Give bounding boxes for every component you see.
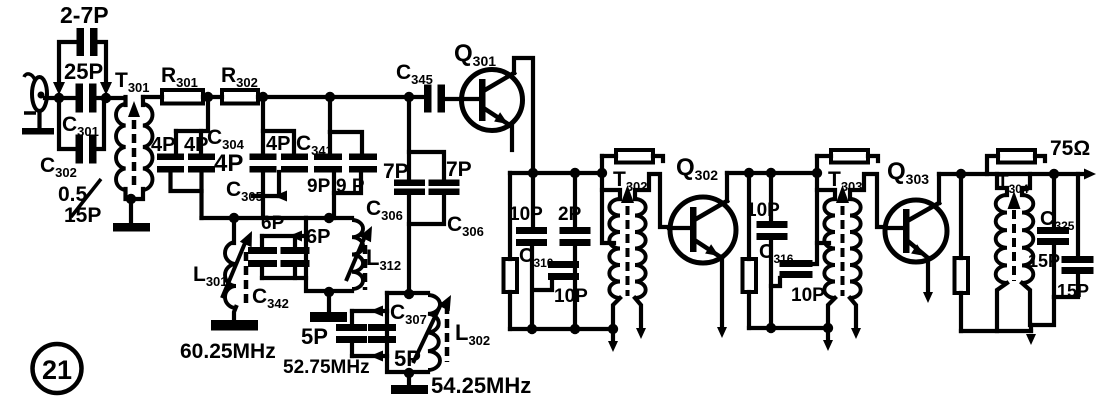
svg-text:54.25MHz: 54.25MHz: [431, 373, 531, 398]
transformer T301 secondary: [143, 97, 152, 190]
label C305: [226, 178, 263, 204]
capacitor 9P (second): [330, 132, 377, 197]
wire (C307 box): [387, 293, 428, 372]
node L (collector junction): [528, 168, 538, 178]
ground (antenna): [22, 111, 54, 135]
svg-text:R302: R302: [221, 64, 258, 90]
wire (L312 box): [306, 218, 352, 291]
capacitor 6P pair C342: [248, 231, 310, 279]
capacitor 4P (third): [250, 133, 291, 173]
label 5P (in box): [394, 346, 421, 371]
transformer T302 primary: [602, 190, 620, 298]
capacitor 4P (first): [151, 131, 184, 173]
svg-text:4P: 4P: [214, 150, 243, 177]
wire (C345 to Q301 base): [446, 97, 462, 101]
wire (node F down): [407, 100, 411, 180]
resistor R301: [161, 64, 203, 104]
wire (rail 1): [510, 327, 613, 331]
svg-text:10P: 10P: [509, 204, 543, 225]
svg-text:15P: 15P: [64, 204, 101, 227]
svg-text:5P: 5P: [394, 346, 421, 371]
svg-text:L312: L312: [366, 245, 401, 273]
wire (node F down to C307 box): [407, 195, 411, 293]
svg-text:T301: T301: [115, 69, 150, 95]
inductor L301: [222, 218, 252, 308]
transformer T302 core: [621, 185, 634, 296]
label 52.75MHz: [283, 357, 370, 378]
svg-text:75Ω: 75Ω: [1050, 137, 1090, 160]
node Q (rail1 end): [608, 324, 618, 334]
wire (group1 bottom bus): [202, 216, 307, 220]
transformer T301 label: [115, 69, 150, 95]
wire (bus 2): [727, 171, 817, 175]
transformer T302 secondary: [635, 174, 669, 298]
svg-text:L301: L301: [193, 263, 228, 289]
svg-text:4P: 4P: [151, 134, 175, 156]
svg-text:4P: 4P: [266, 133, 290, 155]
wire (T301 bottoms): [126, 189, 144, 199]
wire (output bus): [939, 169, 1096, 180]
svg-text:5P: 5P: [301, 324, 328, 349]
capacitor 5P pair: [336, 306, 396, 362]
svg-text:21: 21: [42, 355, 72, 385]
wire (output stage bottom): [1031, 297, 1054, 325]
node X: [1049, 169, 1059, 179]
node T: [766, 323, 776, 333]
svg-text:2-7P: 2-7P: [60, 2, 109, 28]
resistor (bias, output): [955, 174, 969, 331]
node (T301 bottom): [126, 194, 136, 204]
svg-text:10P: 10P: [746, 200, 780, 221]
transformer T304 core: [1008, 191, 1021, 281]
wire (T303 secondary bottom): [850, 298, 861, 339]
ground (L312): [310, 294, 347, 322]
wire (Q303 emitter): [923, 258, 933, 303]
transistor Q302: [669, 197, 736, 263]
svg-text:C306: C306: [366, 197, 403, 223]
label C301: [62, 113, 99, 139]
svg-text:C342: C342: [252, 285, 289, 311]
wire (C301 to T301): [96, 96, 122, 100]
svg-text:C345: C345: [396, 61, 433, 87]
svg-text:Q301: Q301: [454, 40, 496, 69]
resistor (T302 feed): [602, 150, 663, 163]
wire (Q301 collector): [514, 58, 533, 173]
transformer T304 secondary: [1022, 174, 1033, 283]
ground (stage1): [608, 331, 618, 352]
label 15P (C325): [1028, 251, 1060, 271]
capacitor 10P (stage2 lower): [771, 243, 825, 306]
node H (L312 top): [324, 213, 334, 223]
label T304: [997, 172, 1029, 196]
svg-text:4P: 4P: [184, 134, 208, 156]
label C306 left: [366, 197, 403, 223]
svg-text:C325: C325: [1040, 208, 1075, 233]
wire (C341 pair bottom): [253, 172, 287, 218]
wire (R302 to C345, main bus): [258, 95, 425, 99]
ground (T301): [113, 201, 150, 232]
label 54.25MHz: [431, 373, 531, 398]
wire (Q302 emitter): [717, 258, 727, 338]
capacitor 9P (first): [307, 132, 342, 197]
svg-text:9P: 9P: [307, 176, 331, 197]
svg-text:C305: C305: [226, 178, 263, 204]
node E: [325, 92, 335, 102]
capacitor 15P (second): [1054, 174, 1094, 301]
svg-text:C302: C302: [40, 154, 77, 180]
resistor R302: [221, 64, 258, 104]
label L302: [455, 320, 490, 348]
node I (L312 bottom): [324, 287, 334, 297]
label C310: [519, 245, 554, 270]
node K (C307 bottom): [404, 368, 414, 378]
label T302: [613, 168, 648, 194]
resistor 75ohm: [987, 137, 1090, 174]
node A (input junction): [54, 93, 64, 103]
node N: [527, 324, 537, 334]
wire (7P loop bottom): [409, 195, 444, 224]
ground (stage2): [823, 330, 833, 351]
svg-text:10P: 10P: [791, 285, 825, 306]
svg-text:C307: C307: [390, 301, 427, 327]
antenna input connector: [24, 74, 47, 111]
node O: [570, 324, 580, 334]
capacitor C301 25P: [64, 59, 103, 113]
wire (T304 secondary bottom): [1022, 283, 1030, 325]
label 60.25MHz: [180, 340, 276, 363]
label C306 right: [447, 213, 484, 239]
wire (T302 feed down): [602, 156, 614, 243]
trimmer capacitor 2-7P: [53, 2, 112, 95]
resistor (T303 feed): [817, 150, 878, 163]
svg-text:C306: C306: [447, 213, 484, 239]
svg-text:15P: 15P: [1057, 281, 1089, 301]
svg-text:6P: 6P: [261, 213, 285, 234]
node R: [744, 168, 754, 178]
wire (T302 primary bottom): [613, 298, 620, 329]
label T303: [828, 168, 863, 194]
capacitor 10P (stage1): [509, 173, 547, 329]
node W: [956, 169, 966, 179]
label C302 0.5/15P: [40, 154, 101, 227]
transformer T303 primary: [817, 190, 835, 298]
transformer T304 primary: [996, 174, 1007, 283]
wire (Q302 collector): [725, 173, 729, 201]
wire (antenna to C301): [45, 96, 77, 100]
wire (node E down): [328, 100, 332, 132]
wire (T303 primary bottom): [828, 298, 835, 328]
wire (Q303 collector): [937, 174, 941, 203]
capacitor 7P (left, in line): [383, 160, 425, 195]
node J (C307 top): [404, 289, 414, 299]
transformer T303 core: [836, 185, 849, 296]
node U (bus2-T303): [812, 168, 822, 178]
label 6P (first): [261, 213, 285, 234]
wire (node D down): [261, 103, 265, 154]
label Q303: [887, 158, 929, 187]
resistor (bias, stage1): [504, 259, 518, 329]
transistor Q303: [885, 200, 947, 262]
capacitor 7P (right): [409, 152, 472, 195]
node V (rail2 end): [823, 323, 833, 333]
node F (C345 junction): [404, 92, 414, 102]
svg-text:15P: 15P: [1028, 251, 1060, 271]
svg-text:Q302: Q302: [676, 154, 718, 183]
transformer T301 primary: [116, 97, 125, 190]
node C (R301/R302 junction): [203, 92, 213, 102]
wire (T302 secondary bottom): [635, 298, 646, 339]
node M (2P junction): [570, 168, 580, 178]
inductor L302: [413, 295, 451, 370]
capacitor C302: [59, 100, 104, 164]
wire (R301 to R302): [203, 95, 222, 99]
wire (9P pair bottom U): [334, 172, 361, 218]
svg-text:10P: 10P: [554, 286, 588, 307]
wire (T303 feed down): [817, 156, 829, 243]
label L301: [193, 263, 228, 289]
node B (after C301): [101, 93, 111, 103]
node P (bus1-T302): [597, 168, 607, 178]
svg-text:2P: 2P: [558, 204, 582, 225]
page number 21: [33, 344, 82, 393]
svg-text:7P: 7P: [383, 160, 409, 183]
inductor L312: [346, 220, 372, 290]
label Q301: [454, 40, 496, 69]
svg-text:C304: C304: [207, 126, 245, 152]
capacitor 10P (stage1 lower): [533, 261, 588, 307]
wire (T304 primary bottom): [997, 283, 1007, 331]
svg-text:25P: 25P: [64, 59, 103, 84]
capacitor C345: [396, 61, 445, 113]
wire (T301 secondary to R301): [143, 95, 162, 99]
svg-text:L302: L302: [455, 320, 490, 348]
svg-text:6P: 6P: [306, 226, 330, 248]
capacitor 4P (second): [184, 131, 215, 173]
node G (L301 top): [229, 213, 239, 223]
node D: [258, 92, 268, 102]
wire (node C down): [176, 103, 208, 131]
wire (bus 1): [510, 173, 602, 259]
svg-text:52.75MHz: 52.75MHz: [283, 357, 370, 378]
capacitor C325: [1037, 174, 1075, 297]
wire (group1 caps bottom): [171, 172, 202, 218]
svg-text:R301: R301: [161, 64, 198, 90]
ground (C307): [391, 374, 428, 394]
capacitor 10P (stage2): [746, 173, 788, 328]
label C342: [252, 285, 289, 311]
label L312: [366, 245, 401, 273]
capacitor 2P: [558, 173, 591, 329]
ground (L301): [211, 307, 258, 331]
transistor Q301: [462, 70, 523, 151]
label C307: [390, 301, 427, 327]
wire (rail 2): [749, 326, 829, 330]
svg-text:60.25MHz: 60.25MHz: [180, 340, 276, 363]
svg-text:7P: 7P: [446, 158, 472, 181]
label C316: [759, 241, 794, 266]
node S: [766, 168, 776, 178]
svg-text:Q303: Q303: [887, 158, 929, 187]
label 5P (left): [301, 324, 328, 349]
wire (rail 3): [961, 325, 1036, 345]
transformer T303 secondary: [850, 174, 885, 298]
label 6P (second): [306, 226, 330, 248]
capacitor C341: [263, 131, 333, 173]
resistor (bias, stage2): [743, 173, 757, 328]
label C304 4P: [207, 126, 245, 177]
transformer T301 core: [128, 101, 140, 189]
label Q302: [676, 154, 718, 183]
